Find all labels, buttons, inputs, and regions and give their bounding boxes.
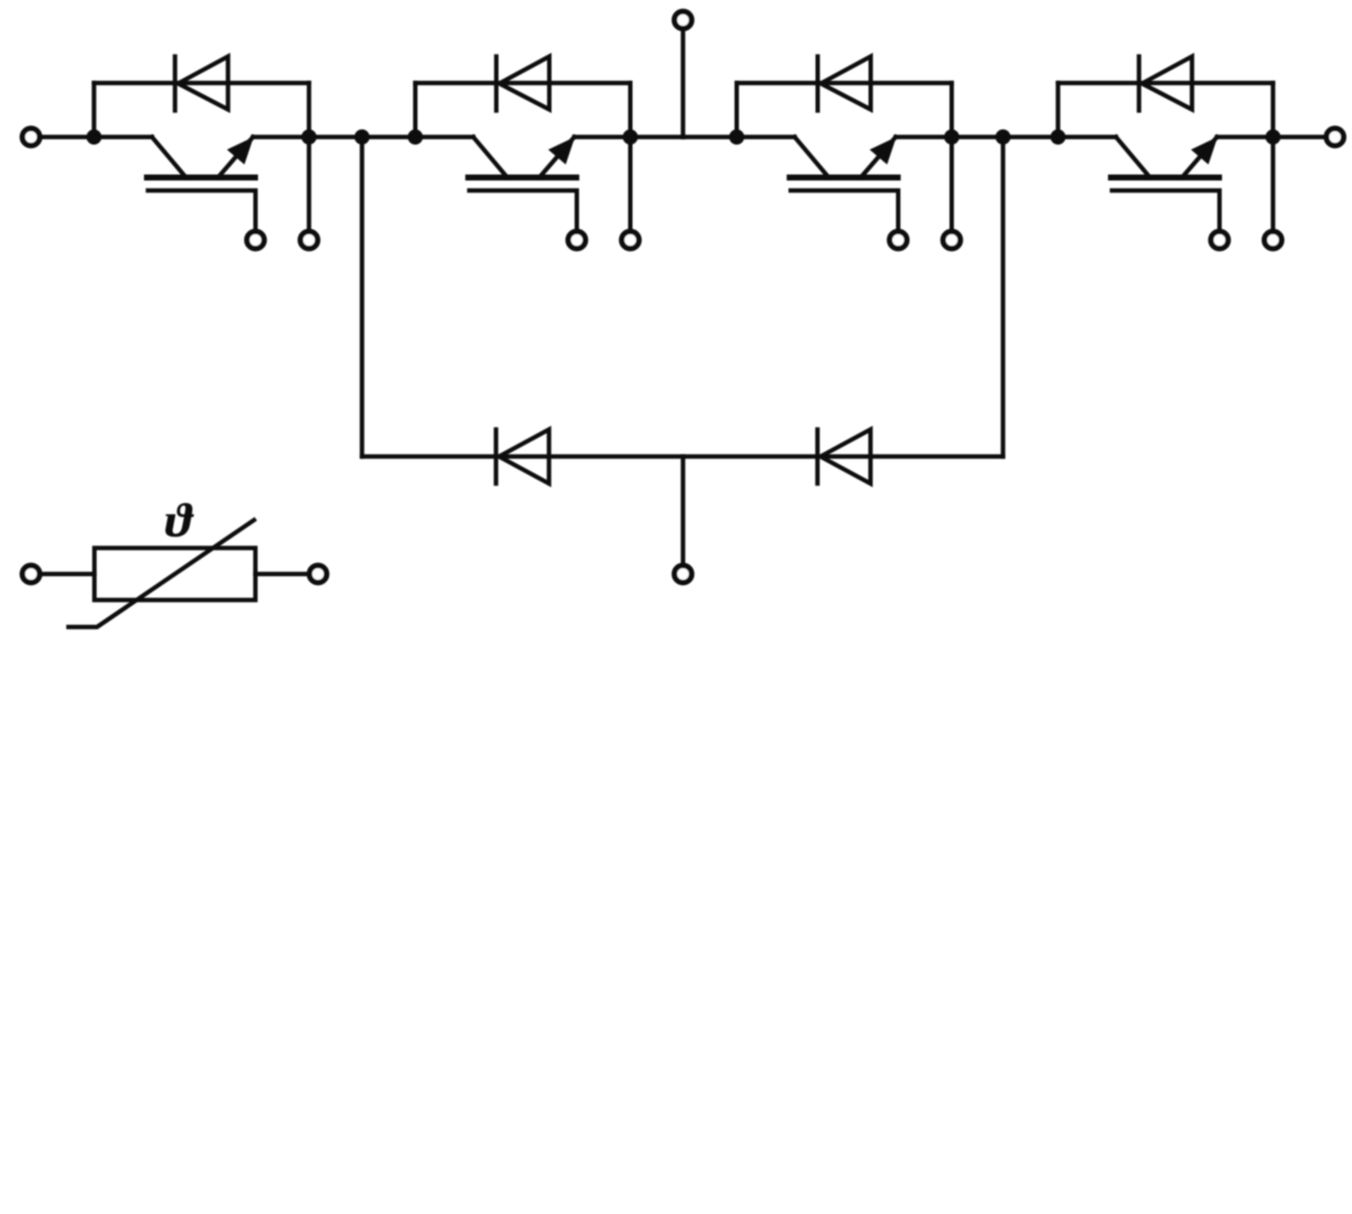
wire: emitter rail segment T3 xyxy=(896,135,952,139)
wire: left drop from node C2 to bottom bus xyxy=(360,137,364,457)
diode D2 triangle xyxy=(499,57,549,110)
wire: right drop from node C4 to bottom bus xyxy=(1001,137,1005,457)
wire: diode loop left riser T1 xyxy=(92,83,96,137)
IGBT T3 emitter diagonal xyxy=(861,137,896,178)
diode D6 cathode bar xyxy=(815,430,819,484)
wire: diode loop right riser T3 xyxy=(950,83,954,137)
junction node C2 xyxy=(354,129,369,144)
wire: diode loop right riser T1 xyxy=(307,83,311,137)
IGBT T4 emitter arrow xyxy=(1193,139,1215,162)
terminal: auxiliary emitter E4 xyxy=(1264,231,1281,248)
terminal: thermistor pin 1 xyxy=(22,565,39,582)
IGBT T3 body bar xyxy=(790,175,898,181)
wire: thermistor right lead xyxy=(255,572,307,576)
wire: collector rail segment T2 xyxy=(415,135,473,139)
junction node at collector of T3 xyxy=(729,129,744,144)
wire: diode loop top rail T4 xyxy=(1058,81,1273,85)
IGBT T2 collector diagonal xyxy=(473,137,507,178)
wire: top terminal tee to T3 collector xyxy=(683,135,737,139)
wire: bottom terminal lead xyxy=(681,457,685,564)
terminal: thermistor pin 2 xyxy=(309,565,326,582)
junction node at collector of T4 xyxy=(1050,129,1065,144)
IGBT T2 emitter arrow xyxy=(551,139,573,162)
junction node at emitter of T1 xyxy=(301,129,316,144)
wire: emitter auxiliary lead T4 xyxy=(1271,137,1275,230)
thermistor R1 body xyxy=(94,548,255,600)
IGBT T2 emitter diagonal xyxy=(539,137,574,178)
IGBT T3 collector diagonal xyxy=(795,137,829,178)
diode D5 triangle xyxy=(499,430,549,484)
wire: diode loop left riser T3 xyxy=(735,83,739,137)
IGBT T1 body bar xyxy=(147,175,255,181)
terminal: auxiliary emitter E2 xyxy=(622,231,639,248)
junction node C4 xyxy=(995,129,1010,144)
thermistor R1 variability stroke xyxy=(69,520,255,627)
terminal: auxiliary emitter E3 xyxy=(943,231,960,248)
terminal: gate G2 xyxy=(568,231,585,248)
wire: T4 emitter to right terminal xyxy=(1273,135,1325,139)
IGBT T3 emitter arrow xyxy=(872,139,894,162)
wire: diode loop top rail T3 xyxy=(737,81,952,85)
wire: T2 emitter to top terminal tee xyxy=(630,135,683,139)
junction node at collector of T1 xyxy=(86,129,101,144)
junction node at collector of T2 xyxy=(408,129,423,144)
wire: emitter auxiliary lead T1 xyxy=(307,137,311,230)
wire: diode loop right riser T4 xyxy=(1271,83,1275,137)
wire: diode loop left riser T2 xyxy=(413,83,417,137)
wire: diode loop left riser T4 xyxy=(1056,83,1060,137)
diode D2 (anti-parallel, cathode bar) xyxy=(494,57,498,111)
IGBT T1 emitter diagonal xyxy=(218,137,253,178)
junction node at emitter of T4 xyxy=(1265,129,1280,144)
terminal: auxiliary emitter E1 xyxy=(300,231,317,248)
terminal: bottom auxiliary DC terminal xyxy=(674,565,691,582)
wire: emitter auxiliary lead T3 xyxy=(950,137,954,230)
wire: emitter rail segment T2 xyxy=(574,135,630,139)
diode D1 triangle xyxy=(178,57,228,110)
wire: T1 emitter to node C2 xyxy=(309,135,362,139)
wire: emitter auxiliary lead T2 xyxy=(628,137,632,230)
wire: diode loop top rail T2 xyxy=(415,81,630,85)
thermistor temperature label (theta) xyxy=(165,503,194,537)
IGBT T4 body bar xyxy=(1111,175,1219,181)
diode D6 triangle xyxy=(821,430,871,484)
terminal: main terminal 2 (right, emitter E4) xyxy=(1326,128,1343,145)
IGBT T4 collector diagonal xyxy=(1116,137,1150,178)
wire: collector rail segment T4 xyxy=(1058,135,1116,139)
IGBT T1 collector diagonal xyxy=(152,137,186,178)
wire: collector rail segment T1 xyxy=(94,135,152,139)
wire: emitter rail segment T4 xyxy=(1217,135,1273,139)
IGBT T1 gate electrode and lead xyxy=(148,191,256,230)
wire: node C4 to T4 collector xyxy=(1003,135,1058,139)
IGBT T4 gate electrode and lead xyxy=(1112,191,1220,230)
wire: T3 emitter to node C4 xyxy=(952,135,1003,139)
diode D4 (anti-parallel, cathode bar) xyxy=(1137,57,1141,111)
IGBT T1 emitter arrow xyxy=(229,139,251,162)
IGBT T2 gate electrode and lead xyxy=(469,191,577,230)
wire: node C2 to T2 collector xyxy=(362,135,415,139)
terminal: gate G1 xyxy=(247,231,264,248)
junction node at emitter of T2 xyxy=(623,129,638,144)
wire: bottom bus rail xyxy=(362,454,1003,458)
IGBT T4 emitter diagonal xyxy=(1182,137,1217,178)
wire: diode loop right riser T2 xyxy=(628,83,632,137)
terminal: gate G4 xyxy=(1211,231,1228,248)
diode D5 cathode bar xyxy=(494,430,498,484)
wire: diode loop top rail T1 xyxy=(94,81,309,85)
IGBT T3 gate electrode and lead xyxy=(791,191,899,230)
wire: left terminal to T1 collector xyxy=(42,135,95,139)
wire: top AC terminal lead xyxy=(681,31,685,138)
diode D3 triangle xyxy=(821,57,871,110)
wire: collector rail segment T3 xyxy=(737,135,795,139)
terminal: gate G3 xyxy=(890,231,907,248)
diode D4 triangle xyxy=(1142,57,1192,110)
wire: emitter rail segment T1 xyxy=(253,135,309,139)
IGBT T2 body bar xyxy=(468,175,576,181)
diode D1 (anti-parallel, cathode bar) xyxy=(173,57,177,111)
wire: thermistor left lead xyxy=(42,572,95,576)
junction node at emitter of T3 xyxy=(944,129,959,144)
terminal: top AC terminal xyxy=(674,11,691,28)
diode D3 (anti-parallel, cathode bar) xyxy=(816,57,820,111)
terminal: main terminal 1 (left, collector C1) xyxy=(22,128,39,145)
